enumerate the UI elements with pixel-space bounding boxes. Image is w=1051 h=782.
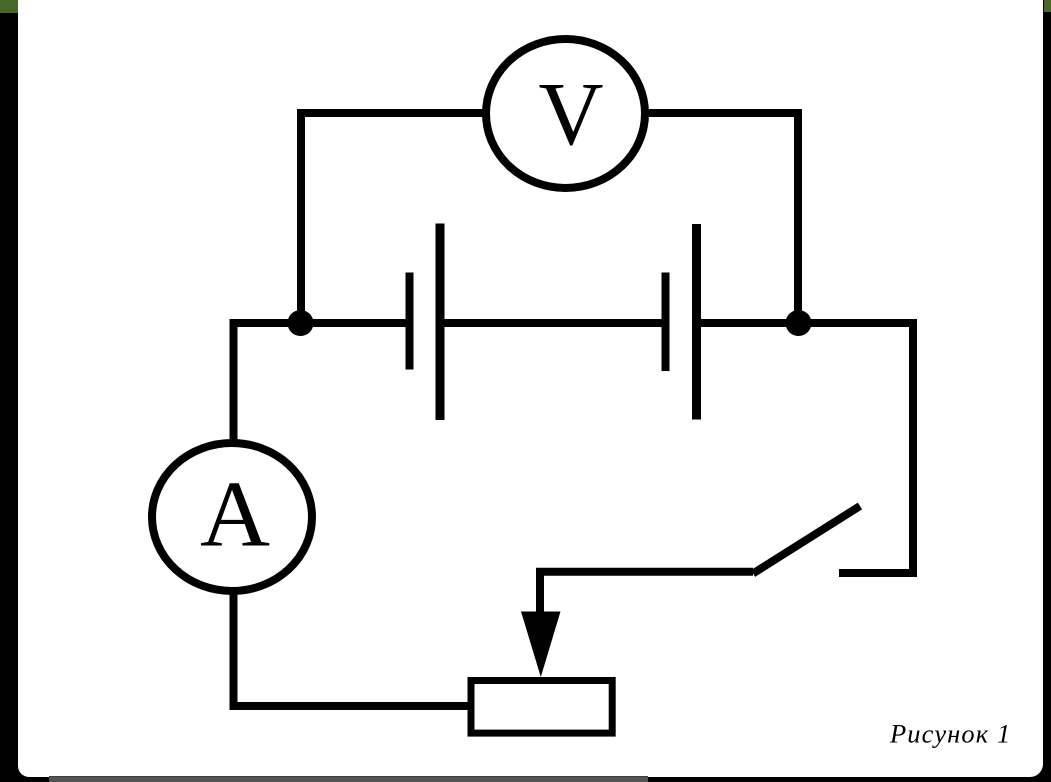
wire switch left lead and wiper drop: [540, 572, 753, 612]
svg-text:Рисунок 1: Рисунок 1: [889, 719, 1011, 749]
rheostat R body: [471, 681, 612, 734]
ammeter A: [152, 443, 312, 591]
voltmeter V: [486, 39, 645, 188]
svg-text:V: V: [539, 65, 604, 164]
wire battery rail left segment and drop to ammeter: [234, 323, 410, 440]
wire ammeter bottom to rheostat left terminal: [234, 591, 469, 706]
node B: [786, 310, 812, 336]
switch S blade: [753, 506, 860, 574]
wire battery rail right segment, right drop and switch fixed contact stub: [696, 323, 913, 573]
wire voltmeter left lead and drop to node A: [301, 113, 486, 323]
wire battery middle rail: [440, 319, 665, 327]
wire voltmeter right lead and drop to node B: [645, 113, 798, 323]
battery cell 1 short plate: [406, 273, 414, 370]
battery cell 2 long plate: [692, 224, 701, 420]
svg-text:A: A: [200, 463, 270, 567]
battery cell 2 short plate: [662, 273, 670, 372]
node A: [288, 310, 314, 336]
battery cell 1 long plate: [436, 224, 445, 421]
rheostat wiper arrowhead: [521, 612, 561, 678]
